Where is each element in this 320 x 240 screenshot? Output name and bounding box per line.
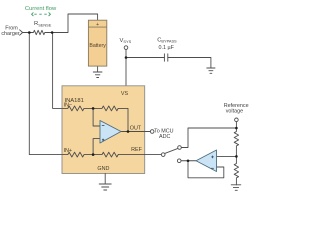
op-amp U1 INA181 xyxy=(100,121,121,144)
terminal reference voltage xyxy=(235,118,239,122)
resistor feedback top xyxy=(93,106,118,111)
terminal VSYS xyxy=(124,46,128,50)
wire REF pin to switch pole xyxy=(145,154,162,156)
wire IN- node to opamp inverting input xyxy=(93,108,100,126)
terminal OUT to MCU xyxy=(150,130,154,134)
wire Vsys node down to VS pin xyxy=(125,49,127,85)
svg-text:voltage: voltage xyxy=(226,108,243,114)
arrow from charger xyxy=(20,30,23,35)
wire right node down to IN- pin xyxy=(53,33,62,109)
wire to REF pin xyxy=(118,154,144,156)
node junction left of RSENSE xyxy=(28,31,31,34)
resistor REF bottom xyxy=(93,152,118,157)
node divider mid junction xyxy=(235,155,238,158)
wire from charger arrow to Rsense xyxy=(23,32,30,34)
resistor divider upper xyxy=(234,128,238,156)
wire opamp output to OUT pin xyxy=(121,131,145,133)
node buffer output junction xyxy=(187,159,190,162)
svg-text:OUT: OUT xyxy=(130,125,142,131)
node divider top junction xyxy=(235,127,238,130)
node OUT feedback junction xyxy=(127,130,130,133)
svg-text:charger: charger xyxy=(1,31,19,37)
resistor input IN+ xyxy=(62,152,93,157)
svg-text:IN−: IN− xyxy=(64,103,73,109)
resistor RSENSE xyxy=(29,30,52,34)
svg-text:Current flow: Current flow xyxy=(25,6,57,12)
svg-text:Battery: Battery xyxy=(89,43,106,49)
op-amp U2 plus sign xyxy=(211,156,214,159)
terminal switch top throw xyxy=(178,146,182,150)
op-amp U1 plus sign xyxy=(102,139,104,141)
wire Rsense to battery top xyxy=(52,14,98,33)
wire feedback to OUT node xyxy=(118,108,128,131)
resistor divider lower xyxy=(234,156,238,184)
node junction right of RSENSE xyxy=(51,31,54,34)
svg-text:VSYS: VSYS xyxy=(120,38,132,44)
resistor input IN- xyxy=(62,106,93,111)
dashed arrow current flow xyxy=(32,12,51,16)
wire buffer output to switch bottom throw xyxy=(181,160,196,162)
ground under battery xyxy=(93,72,102,78)
svg-text:VS: VS xyxy=(121,91,129,97)
wire divider mid node to buffer non-inverting input xyxy=(217,155,237,157)
svg-text:+: + xyxy=(96,22,99,28)
svg-text:REF: REF xyxy=(131,147,142,153)
terminal switch pole xyxy=(161,153,165,157)
ground below INA181 block xyxy=(99,184,111,190)
svg-text:CBYPASS: CBYPASS xyxy=(157,37,177,43)
wire left node down to IN+ pin xyxy=(29,33,62,155)
node IN+ divider junction xyxy=(92,153,95,156)
wire capacitor to ground xyxy=(168,58,211,69)
wire Vsys node to capacitor xyxy=(126,57,164,59)
battery body xyxy=(88,20,106,66)
svg-text:RSENSE: RSENSE xyxy=(34,21,52,27)
svg-text:IN+: IN+ xyxy=(64,148,73,154)
op-amp U2 minus sign xyxy=(211,167,214,169)
wire switch top throw to divider top node xyxy=(181,128,236,148)
battery bottom stub xyxy=(97,66,99,72)
svg-text:0.1 µF: 0.1 µF xyxy=(159,45,175,51)
feedback wire buffer output to inverting input xyxy=(188,161,224,178)
terminal switch bottom throw xyxy=(177,159,181,163)
ground at divider bottom xyxy=(231,185,241,191)
battery separator line xyxy=(88,26,106,28)
svg-text:GND: GND xyxy=(97,166,109,172)
INA181 block body xyxy=(62,86,145,174)
op-amp U2 buffer xyxy=(196,150,217,172)
ground at capacitor xyxy=(207,68,215,73)
GND stub below block xyxy=(104,174,106,185)
node VSYS junction xyxy=(125,56,128,59)
capacitor CBYPASS plates xyxy=(164,54,167,61)
wire IN+ node to opamp non-inverting input xyxy=(93,139,100,155)
wire OUT pin to connector xyxy=(145,131,151,133)
op-amp U1 minus sign xyxy=(102,124,105,126)
switch blade xyxy=(165,148,178,153)
svg-text:ADC: ADC xyxy=(159,134,170,140)
wire reference terminal down xyxy=(235,122,237,128)
node IN- divider junction xyxy=(92,107,95,110)
